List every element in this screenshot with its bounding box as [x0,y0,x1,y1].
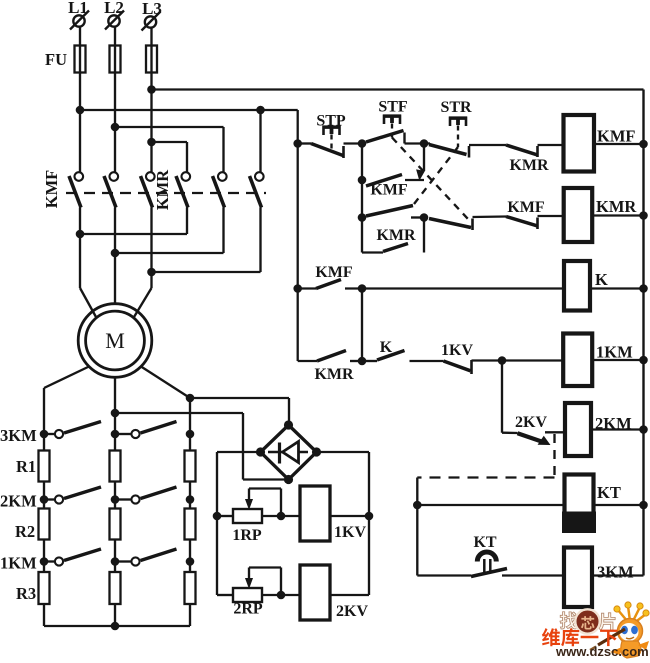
svg-text:KMR: KMR [376,227,416,244]
svg-text:KMF: KMF [507,199,545,216]
svg-text:3KM: 3KM [597,563,634,582]
svg-text:L1: L1 [68,0,88,17]
svg-text:STF: STF [378,99,408,116]
svg-text:1KV: 1KV [334,524,366,541]
svg-text:STR: STR [440,99,472,116]
svg-text:KMR: KMR [153,169,172,210]
svg-text:K: K [380,339,393,356]
svg-text:R1: R1 [16,457,36,476]
svg-text:M: M [105,328,125,353]
svg-text:3KM: 3KM [0,426,37,445]
svg-text:L2: L2 [104,0,124,17]
svg-text:K: K [595,270,608,289]
svg-text:KT: KT [473,534,496,551]
svg-text:2KM: 2KM [595,414,632,433]
svg-text:KMR: KMR [596,197,637,216]
svg-text:KT: KT [597,483,621,502]
svg-text:FU: FU [45,50,67,69]
svg-text:R3: R3 [16,584,36,603]
svg-text:2RP: 2RP [233,601,263,618]
svg-text:STP: STP [316,113,346,130]
svg-text:KMF: KMF [370,182,408,199]
svg-text:1KM: 1KM [596,343,633,362]
svg-text:KMR: KMR [509,157,549,174]
svg-text:www.dzsc.com: www.dzsc.com [555,644,649,659]
svg-text:1RP: 1RP [232,527,262,544]
svg-text:1KM: 1KM [0,554,37,573]
svg-text:1KV: 1KV [441,342,473,359]
svg-text:L3: L3 [142,0,162,18]
svg-text:KMF: KMF [42,170,61,209]
svg-text:KMF: KMF [315,264,353,281]
svg-text:2KM: 2KM [0,492,37,511]
svg-text:KMR: KMR [314,366,354,383]
svg-text:KMF: KMF [597,127,636,146]
svg-text:2KV: 2KV [336,603,368,620]
svg-text:2KV: 2KV [515,414,547,431]
svg-text:R2: R2 [15,522,35,541]
